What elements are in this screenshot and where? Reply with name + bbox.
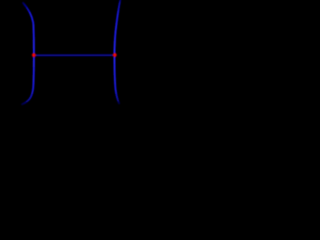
heteroclinic connection line — [34, 54, 115, 56]
left fixed point — [32, 53, 36, 57]
left separatrix curve — [22, 3, 34, 105]
right fixed point — [113, 53, 117, 57]
background — [0, 0, 125, 136]
right separatrix curve — [114, 0, 120, 104]
